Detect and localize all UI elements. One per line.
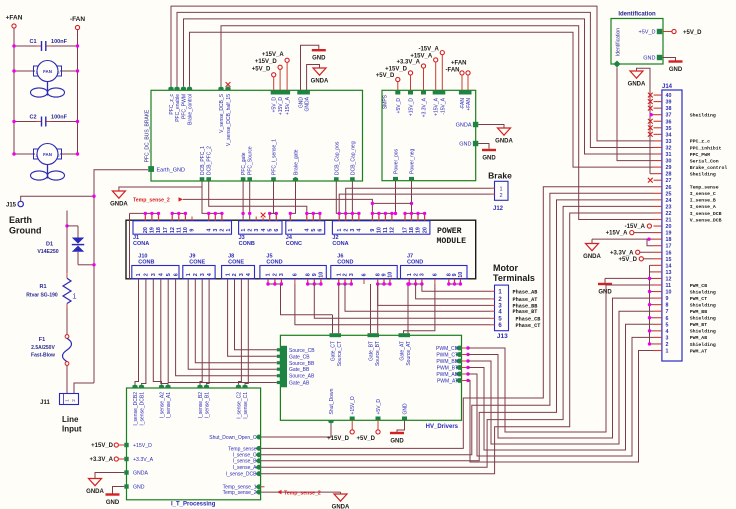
svg-text:+FAN: +FAN [6, 15, 23, 22]
pin J14-18 [654, 237, 672, 243]
junction PWM_BB [466, 359, 469, 362]
svg-text:3: 3 [279, 273, 285, 276]
terminal HV +15V_D [350, 430, 354, 434]
wire Phase_CT [295, 284, 490, 325]
svg-text:Source_AB: Source_AB [289, 374, 315, 380]
svg-text:COND: COND [407, 259, 423, 265]
svg-text:J12: J12 [493, 206, 504, 212]
ground GND [390, 433, 404, 444]
junction [388, 282, 391, 285]
wire pin15 [643, 258, 653, 260]
no-connect J14-38 [648, 106, 653, 111]
pin stub [208, 213, 210, 220]
pin HV +5V_D [376, 417, 381, 421]
no-connect J14-35 [648, 125, 653, 130]
wire shield tap 6 [650, 317, 654, 319]
pin Brake_control [187, 86, 194, 125]
label I_T_Processing [171, 502, 216, 508]
terminal +15V_A [285, 58, 289, 62]
junction [305, 212, 308, 215]
label +5V_D j14 [618, 257, 637, 263]
terminal +15V_A [434, 58, 438, 62]
no-connect J14-34 [648, 132, 653, 137]
wire smps gnda [478, 125, 504, 129]
svg-text:C2: C2 [29, 115, 36, 121]
block SMPS [382, 90, 476, 180]
net Temp_sense_2 [133, 197, 183, 203]
svg-text:12: 12 [170, 227, 176, 233]
pin label IT +15V_D [133, 443, 152, 449]
pin label +5V_D [272, 97, 278, 113]
wire [66, 365, 68, 393]
svg-text:6: 6 [293, 273, 299, 276]
svg-text:+5V_D: +5V_D [618, 257, 637, 263]
junction [414, 282, 417, 285]
svg-text:CONA: CONA [133, 241, 149, 247]
pin stub [351, 213, 353, 220]
wire GNDA tie [119, 181, 202, 191]
junction [220, 212, 223, 215]
pin J14-19 [654, 231, 672, 237]
label Motor [493, 263, 518, 273]
pin Shut_Down_Open_C [255, 435, 260, 440]
junction PWM_AT [466, 379, 469, 382]
svg-text:+3.3V_A: +3.3V_A [89, 457, 113, 463]
pin label +3.3V_A [422, 97, 428, 117]
svg-text:FAN: FAN [43, 152, 52, 157]
wire pin28 [650, 173, 654, 175]
pin nub Source_AB [277, 374, 280, 377]
wire bus [378, 283, 390, 285]
svg-text:+15V_D: +15V_D [91, 443, 114, 449]
svg-text:2: 2 [273, 273, 279, 276]
pin stub [424, 213, 426, 220]
terminal IT +15V_D [114, 443, 118, 447]
svg-text:+3.3V_A: +3.3V_A [610, 250, 634, 256]
junction D1 right [92, 263, 95, 266]
capacitor C1 [14, 39, 78, 51]
pin PFC_gate [241, 177, 246, 181]
pin J14-3 [654, 335, 669, 341]
junction [650, 113, 653, 116]
pin stub [294, 279, 296, 284]
junction [177, 212, 180, 215]
svg-text:16: 16 [666, 250, 672, 256]
pin label Shut_Down_Open_C [209, 435, 257, 441]
svg-text:+15V_A: +15V_A [434, 97, 440, 116]
wire Source_CB [235, 279, 277, 350]
net Temp_sense_2 bottom [277, 490, 321, 496]
svg-text:Shielding: Shielding [690, 316, 716, 322]
no-connect J14-36 [648, 119, 653, 124]
svg-text:+15V_D: +15V_D [385, 67, 408, 73]
pin label I_sense_A [233, 465, 257, 471]
svg-text:Source_BT: Source_BT [375, 341, 381, 366]
pin stub [389, 279, 391, 284]
svg-text:GND: GND [598, 289, 612, 295]
wire [351, 420, 353, 430]
wire Gate_AB [168, 279, 277, 383]
svg-text:I_sense_DCB1: I_sense_DCB1 [140, 392, 146, 426]
connector J3 [239, 221, 282, 247]
ground GND [669, 62, 683, 73]
wire Temp_sense_2 [183, 199, 372, 203]
wire shield tap 12 [650, 277, 654, 279]
connector J15 label [6, 203, 17, 209]
net Serial_Con [690, 158, 719, 164]
pin Temp_sense_2 [255, 490, 260, 495]
label SMPS [382, 94, 388, 109]
svg-text:11: 11 [383, 227, 389, 233]
wire gnd drop [604, 278, 606, 283]
wire Gate_CT [332, 315, 334, 334]
svg-text:I_sense_A1: I_sense_A1 [166, 392, 172, 419]
svg-text:3: 3 [239, 273, 245, 276]
label -15V_A j14 [625, 224, 646, 230]
pin stub [384, 213, 386, 220]
pin label Temp_sense_1 [223, 485, 257, 491]
label Line [62, 415, 79, 424]
svg-text:17: 17 [403, 227, 409, 233]
pin I_sense_A [255, 465, 260, 470]
svg-text:I_sense_DCB: I_sense_DCB [226, 472, 258, 478]
net Sheilding [690, 113, 716, 119]
pin label ident +5V_D [639, 30, 656, 36]
label +5V_D [252, 67, 271, 73]
svg-text:5: 5 [311, 229, 317, 232]
junction [648, 277, 651, 280]
terminal +15V_D [408, 71, 412, 75]
pin label Power_neg [410, 148, 416, 174]
pin label I_sense_A2 [160, 392, 166, 419]
pin stub [363, 279, 365, 284]
pin label I_sense_A1 [166, 392, 172, 419]
label +15V_D [385, 67, 408, 73]
pin label +15V_A [285, 96, 291, 115]
svg-text:I_sense_B: I_sense_B [690, 198, 716, 204]
no-connect J14-27 [648, 178, 653, 183]
svg-text:1: 1 [241, 229, 247, 232]
svg-text:Rtvar SG-190: Rtvar SG-190 [26, 293, 58, 299]
pin label I_sense_C1 [243, 392, 249, 419]
wire DCB_PFC_2 [209, 181, 307, 213]
pin stub [415, 279, 417, 284]
svg-text:PWM_BB: PWM_BB [690, 309, 707, 315]
svg-text:20: 20 [143, 227, 149, 233]
label +15V_D [255, 59, 278, 65]
svg-text:23: 23 [666, 204, 672, 210]
pin J14-8 [654, 303, 669, 309]
svg-text:GNDA: GNDA [495, 139, 513, 145]
terminal +15V_D [278, 65, 282, 69]
pin SMPS +3.3V_A [421, 90, 426, 94]
terminal +15V_A [630, 231, 634, 235]
ground GNDA [86, 479, 104, 496]
wire [77, 30, 79, 154]
svg-text:6: 6 [362, 273, 368, 276]
junction [648, 329, 651, 332]
svg-text:DCB_PFC_1: DCB_PFC_1 [200, 146, 206, 175]
wire gnda drop [591, 239, 593, 243]
wire Phase_AT [416, 284, 490, 299]
svg-text:I_sense_B: I_sense_B [233, 459, 257, 465]
svg-text:Shielding: Shielding [690, 289, 716, 295]
svg-text:GND: GND [403, 403, 409, 415]
pin label +15V_D [409, 98, 415, 117]
pin PWM_CT [456, 352, 462, 357]
svg-text:Temp_sense_2: Temp_sense_2 [133, 198, 170, 204]
pin J14-25 [654, 191, 672, 197]
junction [403, 212, 406, 215]
wire [377, 420, 379, 430]
wire PFC_Source [249, 181, 251, 221]
svg-text:+15V_D: +15V_D [133, 443, 152, 449]
label +15V_A j14 [606, 231, 629, 237]
pin label Temp_sense_2 [223, 490, 257, 496]
pin stub [358, 213, 360, 220]
pin J14-32 [654, 145, 672, 151]
svg-text:CONC: CONC [286, 241, 302, 247]
svg-text:19: 19 [416, 227, 422, 233]
pin J14-10 [654, 290, 672, 296]
svg-text:GND: GND [459, 141, 471, 147]
svg-text:25: 25 [666, 191, 672, 197]
pin label Gate_BT [369, 341, 375, 361]
wire neutral [93, 170, 95, 383]
label Terminals [493, 273, 535, 283]
svg-text:PFC_Source: PFC_Source [248, 146, 254, 175]
svg-text:PWM_AT: PWM_AT [437, 379, 458, 385]
net PWM_AB [690, 335, 707, 341]
pin stub [411, 213, 413, 220]
wire smps gnd [478, 144, 489, 149]
pin stub [214, 213, 216, 220]
pin J14-4 [654, 329, 669, 335]
pin J14-23 [654, 204, 672, 210]
svg-text:GND: GND [133, 485, 145, 491]
wire shield gnd [605, 277, 650, 279]
pin stub [280, 279, 282, 284]
junction [319, 282, 322, 285]
pin stub [383, 279, 385, 284]
wire left drop [129, 213, 131, 279]
svg-text:I_sense_A: I_sense_A [690, 204, 716, 210]
svg-text:GNDA: GNDA [583, 254, 601, 260]
pin J14-28 [654, 172, 672, 178]
svg-text:1: 1 [336, 273, 342, 276]
svg-text:Sheilding: Sheilding [690, 171, 716, 177]
net I_sense_A [690, 204, 716, 210]
svg-text:HV_Drivers: HV_Drivers [426, 424, 459, 430]
wire PWM to J14-3 [468, 337, 654, 456]
pin IT +3.3V_A [124, 457, 128, 461]
label PFC_DC_BUS_BRAKE [145, 109, 151, 162]
pin stub [178, 213, 180, 220]
pin Gate_BT/Source_BT [368, 333, 380, 337]
pin J14-37 [654, 113, 672, 119]
svg-text:Shielding: Shielding [690, 329, 716, 335]
wire [441, 55, 443, 91]
pin label Source_AT [406, 341, 412, 366]
terminal +5V_D j14 [639, 257, 643, 261]
net V_sense_DCB [690, 217, 722, 223]
pin J13-5 [490, 317, 502, 323]
pin J14-40 [654, 93, 672, 99]
svg-text:36: 36 [666, 119, 672, 125]
svg-text:2: 2 [666, 342, 669, 348]
svg-text:Gate_CB: Gate_CB [289, 354, 310, 360]
junction [371, 212, 374, 215]
pin label Gate_CT [331, 341, 337, 361]
junction PWM_AB [466, 372, 469, 375]
svg-text:10: 10 [319, 272, 325, 278]
svg-text:-FAN: -FAN [446, 68, 460, 74]
pin stub PWM_BB [462, 360, 469, 362]
pin bar HV left [280, 346, 287, 388]
pin ident GND [657, 55, 662, 60]
pin DCB_Cap_neg [350, 177, 355, 181]
net PWM_BB [690, 309, 707, 315]
pin stub [275, 213, 277, 220]
pin label I_sense_C [233, 453, 257, 459]
svg-text:2.5A/250V: 2.5A/250V [31, 345, 55, 351]
label HV +5V_D [356, 436, 375, 442]
wire PPC_PWM [184, 19, 654, 154]
svg-text:Earth_GND: Earth_GND [157, 167, 185, 173]
svg-text:4: 4 [207, 273, 213, 276]
pin SMPS +15V_D [408, 90, 413, 94]
wire line [66, 211, 68, 274]
svg-text:1: 1 [407, 273, 413, 276]
junction [76, 120, 79, 123]
svg-text:Source_AT: Source_AT [406, 341, 412, 366]
label IT +15V_D [91, 443, 114, 449]
connector J8 [222, 253, 255, 279]
pin label DCB_PFC_1 [200, 146, 206, 175]
svg-text:V_sense_DCB: V_sense_DCB [690, 217, 722, 223]
pin label GNDA smps [456, 122, 472, 128]
svg-text:+15V_A: +15V_A [285, 96, 291, 115]
svg-text:31: 31 [666, 152, 672, 158]
ground GNDA [311, 68, 329, 85]
svg-text:19: 19 [666, 231, 672, 237]
pin J14-2 [654, 342, 669, 348]
wire Gate_BT [370, 284, 372, 333]
junction PWM_BT [466, 366, 469, 369]
svg-text:4: 4 [206, 229, 212, 232]
pin J14-11 [654, 283, 672, 289]
wire PWM to J14-11 [468, 285, 654, 432]
terminal +FAN2 [466, 71, 470, 75]
svg-text:D1: D1 [46, 242, 53, 248]
svg-text:I_T_Processing: I_T_Processing [171, 502, 216, 508]
wire PWM to J14-9 [468, 298, 654, 438]
ground GND [106, 495, 120, 506]
svg-text:CONE: CONE [189, 259, 205, 265]
svg-text:1: 1 [186, 273, 192, 276]
svg-text:35: 35 [666, 126, 672, 132]
pin IT +15V_D [124, 443, 128, 447]
svg-text:PFC_DC_BUS_BRAKE: PFC_DC_BUS_BRAKE [145, 109, 151, 162]
net Temp_sense [690, 185, 719, 191]
wire power tie [372, 202, 411, 204]
wire Power_neg [411, 181, 413, 214]
junction [406, 282, 409, 285]
pin label +15V_D [278, 97, 284, 116]
pin label I_sense_B2 [198, 392, 204, 419]
pin J12-1 [491, 187, 495, 189]
svg-text:+3.3V_A: +3.3V_A [396, 60, 420, 66]
pin J14-36 [654, 119, 672, 125]
svg-text:I_sense_DCB: I_sense_DCB [690, 211, 722, 217]
pin SMPS -FAN +FAN [459, 90, 472, 94]
svg-text:1: 1 [288, 229, 294, 232]
no-connect V_sense_DCB_half_15 [226, 82, 231, 87]
svg-text:20: 20 [422, 227, 428, 233]
wire shield tap 13 [650, 271, 654, 273]
junction [12, 120, 15, 123]
svg-text:SMPS: SMPS [382, 94, 388, 109]
wire [435, 62, 437, 90]
pin nub Source_CB [277, 348, 280, 351]
svg-text:28: 28 [666, 172, 672, 178]
svg-text:11: 11 [177, 227, 183, 233]
pin PWM_AT [456, 378, 462, 383]
svg-text:DCB_Cap_neg: DCB_Cap_neg [350, 141, 356, 175]
svg-text:GNDA: GNDA [332, 505, 350, 509]
svg-text:13: 13 [666, 270, 672, 276]
svg-text:Power_neg: Power_neg [410, 148, 416, 174]
pin I_sense_B [255, 458, 260, 463]
pin label GNDA [305, 96, 311, 111]
svg-text:5: 5 [267, 229, 273, 232]
pin label DCB_Cap_pos [334, 141, 340, 175]
label HV_Drivers [426, 424, 459, 430]
pin label Temp_sense [228, 446, 257, 452]
junction [157, 212, 160, 215]
pin stub [184, 213, 186, 220]
net Phase_AB [513, 289, 538, 295]
wire PFC_gate [242, 181, 244, 221]
svg-text:Phase_AT: Phase_AT [513, 297, 538, 303]
pin J14-14 [654, 263, 672, 269]
pin label I_sense_DCB2 [133, 392, 139, 426]
wire pin16 [640, 251, 654, 253]
svg-text:9: 9 [312, 273, 318, 276]
label Identification [618, 12, 656, 18]
pin label PFC_gate [241, 152, 247, 175]
net Brake_control [690, 165, 728, 171]
svg-text:R1: R1 [39, 284, 46, 290]
wire sense feed [153, 279, 161, 384]
svg-text:33: 33 [666, 139, 672, 145]
svg-text:Phase_CB: Phase_CB [516, 316, 541, 322]
pin J12-2 [491, 193, 495, 195]
net Phase_CT [516, 323, 541, 329]
connector J14 box [662, 90, 682, 361]
svg-text:Temp_sense: Temp_sense [228, 446, 257, 452]
junction earth [92, 195, 95, 198]
ground GNDA [332, 494, 350, 509]
pin label I_sense_DCB1 [140, 392, 146, 426]
net I_sense_C [690, 191, 716, 197]
svg-text:GNDA: GNDA [311, 79, 329, 85]
svg-text:Identification: Identification [618, 12, 656, 18]
svg-text:Source_CT: Source_CT [337, 341, 343, 366]
pin IT GND [124, 484, 128, 488]
connector J6 [331, 253, 397, 279]
svg-text:GNDA: GNDA [133, 471, 149, 477]
